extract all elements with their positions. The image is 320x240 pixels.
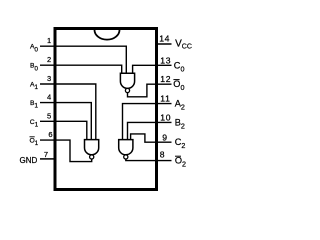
IC body (DIP-14 outline) — [55, 29, 157, 190]
svg-text:12: 12 — [160, 74, 171, 84]
wire pin13 C0 to gate U0 right input — [133, 65, 172, 73]
wire gate U2 output to pin8 O2 — [126, 159, 172, 161]
wire pin5 C1 to gate U1 left input — [40, 121, 87, 139]
wire gate U0 output to pin12 O0 — [128, 84, 172, 97]
svg-text:6: 6 — [48, 130, 52, 139]
wire pin9 C2 to gate U2 right input (staircase) — [131, 134, 172, 142]
wire pin11 A2 to gate U2 left input — [123, 104, 172, 140]
svg-text:5: 5 — [47, 111, 51, 120]
svg-text:1: 1 — [47, 36, 51, 45]
svg-text:8: 8 — [160, 149, 165, 159]
NAND gate U2 (pins 11,10,9 -> 8) — [119, 140, 133, 159]
wire pin4 B1 to gate U1 middle input — [40, 103, 91, 140]
svg-text:4: 4 — [47, 93, 51, 102]
svg-text:13: 13 — [160, 55, 171, 65]
NAND gate U1 (pins 3,4,5 -> 6) — [85, 140, 99, 159]
wire pin10 B2 to gate U2 middle input — [128, 122, 172, 139]
svg-text:GND: GND — [20, 156, 38, 165]
svg-text:3: 3 — [47, 74, 51, 83]
wire pin2 B0 to gate U0 left input — [40, 65, 122, 73]
wire pin14 VCC stub — [156, 43, 172, 45]
svg-text:10: 10 — [160, 112, 171, 122]
svg-text:11: 11 — [160, 94, 170, 104]
svg-text:7: 7 — [44, 150, 48, 159]
wire pin7 GND stub — [40, 158, 55, 160]
svg-text:9: 9 — [162, 133, 167, 143]
svg-text:14: 14 — [159, 33, 170, 43]
wire gate U1 output to pin6 O1 — [40, 140, 92, 162]
notch (index mark at top of package) — [95, 30, 120, 40]
wire pin3 A1 to gate U1 right input — [40, 84, 96, 140]
svg-text:2: 2 — [47, 55, 51, 64]
wire pin1 A0 to gate U0 middle input — [40, 46, 126, 73]
NAND gate U0 (pins 1,2,13 -> 12) — [120, 73, 134, 92]
